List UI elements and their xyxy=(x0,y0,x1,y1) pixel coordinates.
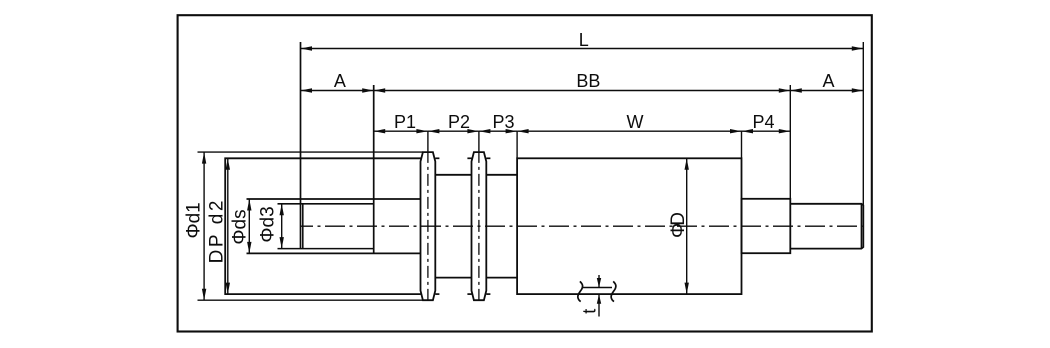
svg-text:t: t xyxy=(579,309,599,314)
svg-text:Φd1: Φd1 xyxy=(184,202,205,238)
dimension P2 xyxy=(428,130,479,132)
break mark left xyxy=(578,281,583,301)
thread ds lines xyxy=(247,199,421,253)
svg-text:A: A xyxy=(334,71,346,91)
svg-text:ΦD: ΦD xyxy=(668,212,689,238)
border frame xyxy=(178,15,872,331)
dimension A right xyxy=(790,90,863,92)
shaft left end face xyxy=(300,42,302,249)
journal chamfer xyxy=(860,204,862,249)
svg-text:P1: P1 xyxy=(394,112,416,132)
svg-text:A: A xyxy=(822,71,834,91)
svg-text:P4: P4 xyxy=(752,112,774,132)
dimension A left xyxy=(301,90,374,92)
cylinder body D xyxy=(517,158,741,294)
step block xyxy=(742,199,791,253)
disc 1 centerline xyxy=(427,151,429,303)
dimension d2 xyxy=(227,158,229,294)
svg-text:BB: BB xyxy=(576,71,600,91)
block d2 body xyxy=(225,158,420,294)
dimension P1 xyxy=(374,130,428,132)
dimension BB xyxy=(374,90,791,92)
dimension W xyxy=(517,130,741,132)
svg-text:P2: P2 xyxy=(448,112,470,132)
break mark right xyxy=(611,281,616,301)
journal right xyxy=(790,204,863,249)
dimension L xyxy=(301,42,864,205)
disc 2 stubs xyxy=(467,158,490,294)
ring disc 2 xyxy=(472,152,487,300)
dimension ds xyxy=(248,199,250,253)
disc 1 stubs xyxy=(435,158,439,294)
dimension P4 xyxy=(742,130,791,132)
dimension D xyxy=(686,158,688,294)
flat detail line xyxy=(582,287,612,289)
svg-text:W: W xyxy=(627,112,644,132)
node shaft end right xyxy=(373,85,375,253)
extension lines row3 xyxy=(428,85,790,199)
centerline main axis xyxy=(301,225,863,227)
spacer before cylinder xyxy=(486,175,517,278)
dimension d1 xyxy=(198,152,423,300)
thread d3 lines xyxy=(278,204,374,249)
svg-text:P3: P3 xyxy=(492,112,514,132)
ring disc 1 xyxy=(421,152,436,300)
dimension t xyxy=(598,275,600,317)
svg-text:Φd3: Φd3 xyxy=(258,206,279,242)
svg-text:Φds: Φds xyxy=(229,209,250,244)
dimension d3 xyxy=(281,204,283,249)
shaft left chamfer xyxy=(302,204,304,249)
dimension P3 xyxy=(479,130,517,132)
disc 2 centerline xyxy=(478,151,480,303)
svg-text:DP d2: DP d2 xyxy=(207,198,228,263)
svg-text:L: L xyxy=(579,30,589,50)
spacer between discs xyxy=(435,175,471,278)
